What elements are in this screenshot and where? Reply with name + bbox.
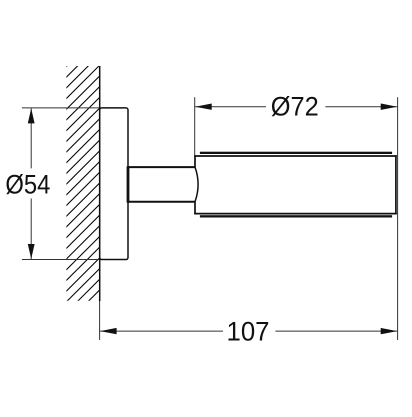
dim 107 line right segment	[275, 330, 397, 332]
dim Ø72 line right segment	[325, 106, 397, 108]
dim 107 line left segment	[100, 330, 223, 332]
dim 107 right arrow	[381, 328, 398, 334]
stem bottom line	[128, 201, 195, 203]
extension line below wall (107 left)	[99, 301, 101, 340]
dim Ø54 bottom arrow	[28, 244, 35, 259]
plate edge thick section at stem	[127, 166, 130, 202]
dim Ø54: bottom extension line	[22, 259, 99, 261]
stem top line	[128, 166, 195, 168]
dim Ø72/107: right extension line	[397, 97, 399, 340]
stem/cylinder intersection curve	[195, 167, 198, 202]
cylinder left edge lower segment	[194, 202, 196, 215]
dim Ø72 left arrow	[195, 104, 212, 110]
wall plate (mounting rosette)	[100, 108, 128, 260]
wall hatch	[0, 50, 350, 320]
dim Ø54 line upper segment	[30, 108, 32, 168]
svg-text:107: 107	[227, 316, 270, 346]
dim Ø72 line left segment	[195, 106, 266, 108]
dim 107 left arrow	[100, 328, 117, 334]
cylinder bottom lip	[200, 215, 392, 217]
dim Ø54 top arrow	[28, 108, 35, 123]
cylinder bottom edge	[194, 213, 397, 215]
dim Ø54 line lower segment	[30, 198, 32, 259]
dim Ø72 right arrow	[381, 104, 398, 110]
cylinder right edge	[395, 155, 397, 214]
dim Ø72: left extension line	[194, 97, 196, 155]
dim Ø54: top extension line	[22, 107, 99, 109]
svg-text:Ø54: Ø54	[5, 170, 50, 200]
svg-text:Ø72: Ø72	[271, 92, 319, 122]
cylinder top lip	[200, 152, 392, 154]
cylinder left edge upper segment	[194, 155, 196, 167]
wall face line	[99, 66, 101, 301]
holder cylinder body	[195, 156, 396, 214]
cylinder top edge	[194, 155, 397, 157]
